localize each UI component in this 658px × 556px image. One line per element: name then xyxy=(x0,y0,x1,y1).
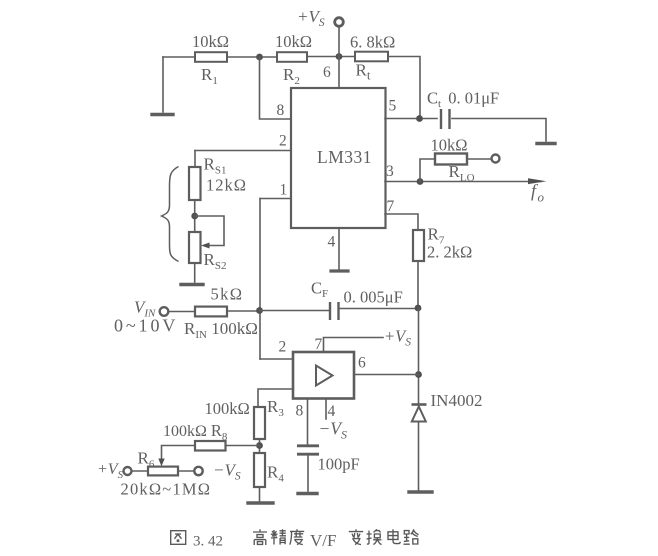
wire R1 to R2 xyxy=(227,56,277,58)
resistor Rlo xyxy=(435,154,467,165)
arrow R6 wiper tip xyxy=(158,459,164,467)
svg-text:100kΩ R8: 100kΩ R8 xyxy=(163,421,228,443)
IC U1 LM331 box xyxy=(291,88,386,228)
ground right of Ct xyxy=(537,142,555,145)
wire pin 4 LM331 xyxy=(338,228,340,269)
node opamp out/diode junction xyxy=(415,371,422,378)
caption hanzi du (degree) xyxy=(290,529,304,544)
terminal Rlo right xyxy=(492,155,500,163)
wire RLO left xyxy=(420,159,435,182)
wire pin 1 xyxy=(260,198,291,200)
svg-text:Ct 0. 01μF: Ct 0. 01μF xyxy=(427,89,499,111)
svg-text:2: 2 xyxy=(279,133,287,150)
terminal R6 left xyxy=(124,467,132,475)
wire R4 to ground xyxy=(259,487,261,501)
wire opamp pin 4 stub xyxy=(325,399,327,420)
node pin3/RLO junction xyxy=(417,178,424,185)
svg-text:R6: R6 xyxy=(138,449,155,471)
svg-text:6. 8kΩ: 6. 8kΩ xyxy=(350,33,395,52)
wire Vin terminal to Rin xyxy=(169,311,196,313)
wire 100pF to ground xyxy=(307,456,309,492)
svg-text:8: 8 xyxy=(277,102,285,119)
node Cf/R7 junction xyxy=(415,305,422,312)
wire R6 right terminal xyxy=(178,470,194,472)
svg-text:LM331: LM331 xyxy=(317,147,372,167)
diode D1 IN4002 cathode bar xyxy=(412,403,427,406)
svg-text:10kΩ: 10kΩ xyxy=(192,32,229,51)
resistor R3 xyxy=(254,407,265,439)
svg-text:5kΩ: 5kΩ xyxy=(211,285,244,304)
wire Rin to junction xyxy=(227,310,260,312)
svg-text:−VS: −VS xyxy=(213,461,241,483)
capacitor 100pF xyxy=(297,446,319,454)
potentiometer R6 body xyxy=(148,467,178,476)
svg-text:0. 005μF: 0. 005μF xyxy=(344,288,403,307)
node R1/R2 junction xyxy=(256,54,263,61)
wire opamp pin 2 xyxy=(260,358,293,360)
svg-text:R2: R2 xyxy=(283,65,300,87)
arrow Rs2 wiper tip xyxy=(201,243,210,249)
wire pin 7 xyxy=(385,214,418,230)
wire Rt to pin5 corner xyxy=(388,57,420,119)
wire pin2 drop to Rs1 xyxy=(194,151,196,168)
svg-text:R3: R3 xyxy=(267,397,284,419)
svg-text:5: 5 xyxy=(389,98,397,115)
terminal R6 right xyxy=(194,467,202,475)
resistor Rs1 xyxy=(189,167,201,200)
svg-text:7: 7 xyxy=(315,336,323,353)
node R3/R4/R8 junction xyxy=(256,442,263,449)
wire +Vs terminal drop xyxy=(338,27,340,57)
wire pin 6 xyxy=(338,57,340,89)
caption hanzi tu (figure) xyxy=(171,531,186,545)
svg-text:+VS: +VS xyxy=(384,327,411,349)
wire left drop to ground xyxy=(162,57,164,112)
wire junction to Cf xyxy=(260,310,330,312)
svg-text:1: 1 xyxy=(280,182,288,199)
caption hanzi huan (change) xyxy=(367,529,382,544)
svg-text:3: 3 xyxy=(386,163,394,180)
resistor Rt xyxy=(355,52,388,62)
wire R2 to Rt xyxy=(307,56,355,58)
wire opamp in- to R3 xyxy=(258,389,293,407)
caption hanzi gao (high) xyxy=(253,529,267,545)
node Rin/pin1 junction xyxy=(256,307,263,314)
wire pin 3 output xyxy=(385,181,541,183)
ground under left wire xyxy=(152,113,173,116)
svg-text:4: 4 xyxy=(328,234,336,251)
svg-text:Rt: Rt xyxy=(356,61,371,83)
ground under Rs2 xyxy=(181,283,203,286)
caption hanzi lu (circuit) xyxy=(404,529,419,544)
svg-text:R1: R1 xyxy=(201,65,218,87)
terminal +Vs top xyxy=(335,18,344,27)
wire R8 left to R6 wiper xyxy=(162,446,196,461)
ground under 100pF xyxy=(298,492,317,495)
caption hanzi dian (electric) xyxy=(388,529,400,543)
svg-text:CF: CF xyxy=(311,279,328,301)
wire R6 left terminal xyxy=(132,470,148,472)
svg-text:R4: R4 xyxy=(267,463,284,485)
ground under R4 xyxy=(248,501,273,504)
ground under diode xyxy=(409,490,432,493)
svg-text:2: 2 xyxy=(279,339,287,356)
wire pin 2 xyxy=(195,150,291,152)
svg-text:6: 6 xyxy=(358,355,366,372)
wire R7 bottom xyxy=(417,261,419,308)
svg-text:10kΩ: 10kΩ xyxy=(431,136,468,155)
resistor R8 xyxy=(195,441,226,451)
wire pin 5 xyxy=(385,118,437,120)
op-amp U1 box xyxy=(293,352,354,399)
node Rs1/Rs2 junction xyxy=(191,213,198,220)
svg-text:3. 42: 3. 42 xyxy=(193,534,223,550)
svg-text:+VS: +VS xyxy=(97,461,124,481)
svg-text:8: 8 xyxy=(296,403,304,420)
resistor R7 xyxy=(413,230,424,261)
svg-text:V/F: V/F xyxy=(310,531,336,550)
resistor R2 xyxy=(277,52,307,62)
svg-text:RS1: RS1 xyxy=(204,155,227,177)
wire Rs2 to ground xyxy=(194,263,196,282)
svg-text:12kΩ: 12kΩ xyxy=(206,176,247,195)
capacitor Cf xyxy=(330,302,339,320)
wire R3 to R4 xyxy=(259,439,261,453)
wire opamp pin 7 xyxy=(324,338,384,353)
svg-text:fo: fo xyxy=(531,181,545,205)
svg-text:7: 7 xyxy=(387,198,395,215)
ground pin 4 xyxy=(331,269,348,272)
resistor Rs2 xyxy=(189,232,201,263)
wire R7 junction down to diode xyxy=(418,308,420,403)
wire Cf to R7 junction xyxy=(339,308,418,310)
svg-text:−VS: −VS xyxy=(319,419,348,442)
caption hanzi bian (convert) xyxy=(349,529,363,544)
caption hanzi jing (precision) xyxy=(271,529,286,544)
wire opamp pin 8 to cap xyxy=(307,399,309,446)
wire Rs1 to Rs2 xyxy=(194,200,196,232)
op-amp U1 triangle xyxy=(316,366,333,386)
wire pin 8 xyxy=(260,57,292,119)
resistor R4 xyxy=(254,453,265,487)
terminal Vin xyxy=(160,307,169,316)
WIRES2 xyxy=(97,7,545,499)
wire opamp pin 6 out xyxy=(354,374,419,376)
diode D1 IN4002 triangle xyxy=(412,407,426,422)
wire R8 right xyxy=(226,445,260,447)
resistor R1 xyxy=(195,52,227,62)
brace left of Rs1 Rs2 xyxy=(162,167,179,262)
resistor Rin xyxy=(195,307,227,317)
svg-text:IN4002: IN4002 xyxy=(431,391,483,410)
svg-text:4: 4 xyxy=(328,403,336,420)
svg-text:RS2: RS2 xyxy=(204,250,227,272)
wire RLO right to terminal xyxy=(467,158,491,160)
svg-text:10kΩ: 10kΩ xyxy=(275,32,312,51)
svg-text:0~10V: 0~10V xyxy=(114,316,178,336)
arrow fo output xyxy=(528,178,547,184)
svg-text:2. 2kΩ: 2. 2kΩ xyxy=(427,243,472,262)
capacitor Ct xyxy=(441,109,450,129)
wire Rs2 wiper xyxy=(195,216,224,246)
wire diode to ground xyxy=(418,423,420,491)
svg-text:6: 6 xyxy=(323,64,331,81)
svg-text:100kΩ: 100kΩ xyxy=(205,399,250,418)
wire top-left to R1 xyxy=(163,56,195,58)
svg-text:100pF: 100pF xyxy=(318,455,360,474)
wire Ct to ground xyxy=(452,119,546,142)
svg-text:RIN 100kΩ: RIN 100kΩ xyxy=(184,319,258,341)
svg-text:20kΩ~1MΩ: 20kΩ~1MΩ xyxy=(121,480,212,499)
wire vertical pin1 to opamp xyxy=(259,199,261,360)
node pin5/Rt junction xyxy=(416,115,423,122)
svg-text:+VS: +VS xyxy=(297,7,325,29)
node +Vs junction xyxy=(336,53,343,60)
